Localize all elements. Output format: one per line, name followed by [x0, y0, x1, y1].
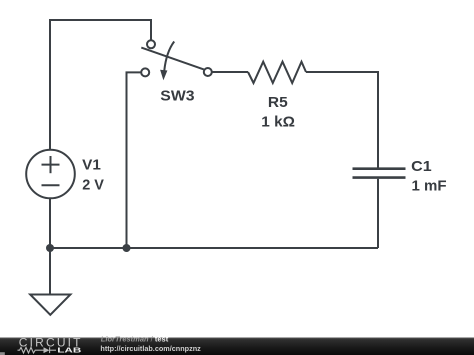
- wire from resistor to capacitor top: [306, 72, 378, 168]
- svg-text:LAB: LAB: [57, 346, 82, 355]
- svg-text:http://circuitlab.com/cnnpznz: http://circuitlab.com/cnnpznz: [100, 344, 201, 353]
- wire from switch right terminal to resistor: [212, 71, 249, 73]
- wire from V1 bottom to bottom rail: [49, 199, 51, 249]
- svg-text:SW3: SW3: [160, 88, 194, 105]
- svg-text:LiorTrestman / test: LiorTrestman / test: [101, 335, 169, 344]
- footer corner mark: [0, 352, 5, 355]
- svg-text:C1: C1: [411, 158, 432, 175]
- ground: [30, 248, 70, 315]
- junction node at V1 / ground: [46, 244, 54, 252]
- footer bar: [0, 338, 474, 355]
- wire from switch left terminal down: [127, 72, 142, 248]
- wire top loop from V1 to switch top terminal: [50, 20, 151, 150]
- capacitor C1: [353, 169, 406, 178]
- svg-text:1 kΩ: 1 kΩ: [261, 113, 295, 130]
- svg-text:R5: R5: [268, 94, 288, 111]
- junction node at switch branch: [123, 244, 131, 252]
- wire bottom rail: [50, 247, 378, 249]
- voltage source V1: [26, 150, 75, 199]
- svg-text:1 mF: 1 mF: [412, 177, 447, 194]
- svg-text:V1: V1: [82, 156, 101, 173]
- svg-text:2 V: 2 V: [82, 177, 104, 194]
- resistor R5: [248, 62, 306, 83]
- wire from capacitor bottom to bottom rail: [377, 179, 379, 248]
- switch SW3: [141, 40, 212, 80]
- logo resistor-diode symbol: [18, 347, 57, 353]
